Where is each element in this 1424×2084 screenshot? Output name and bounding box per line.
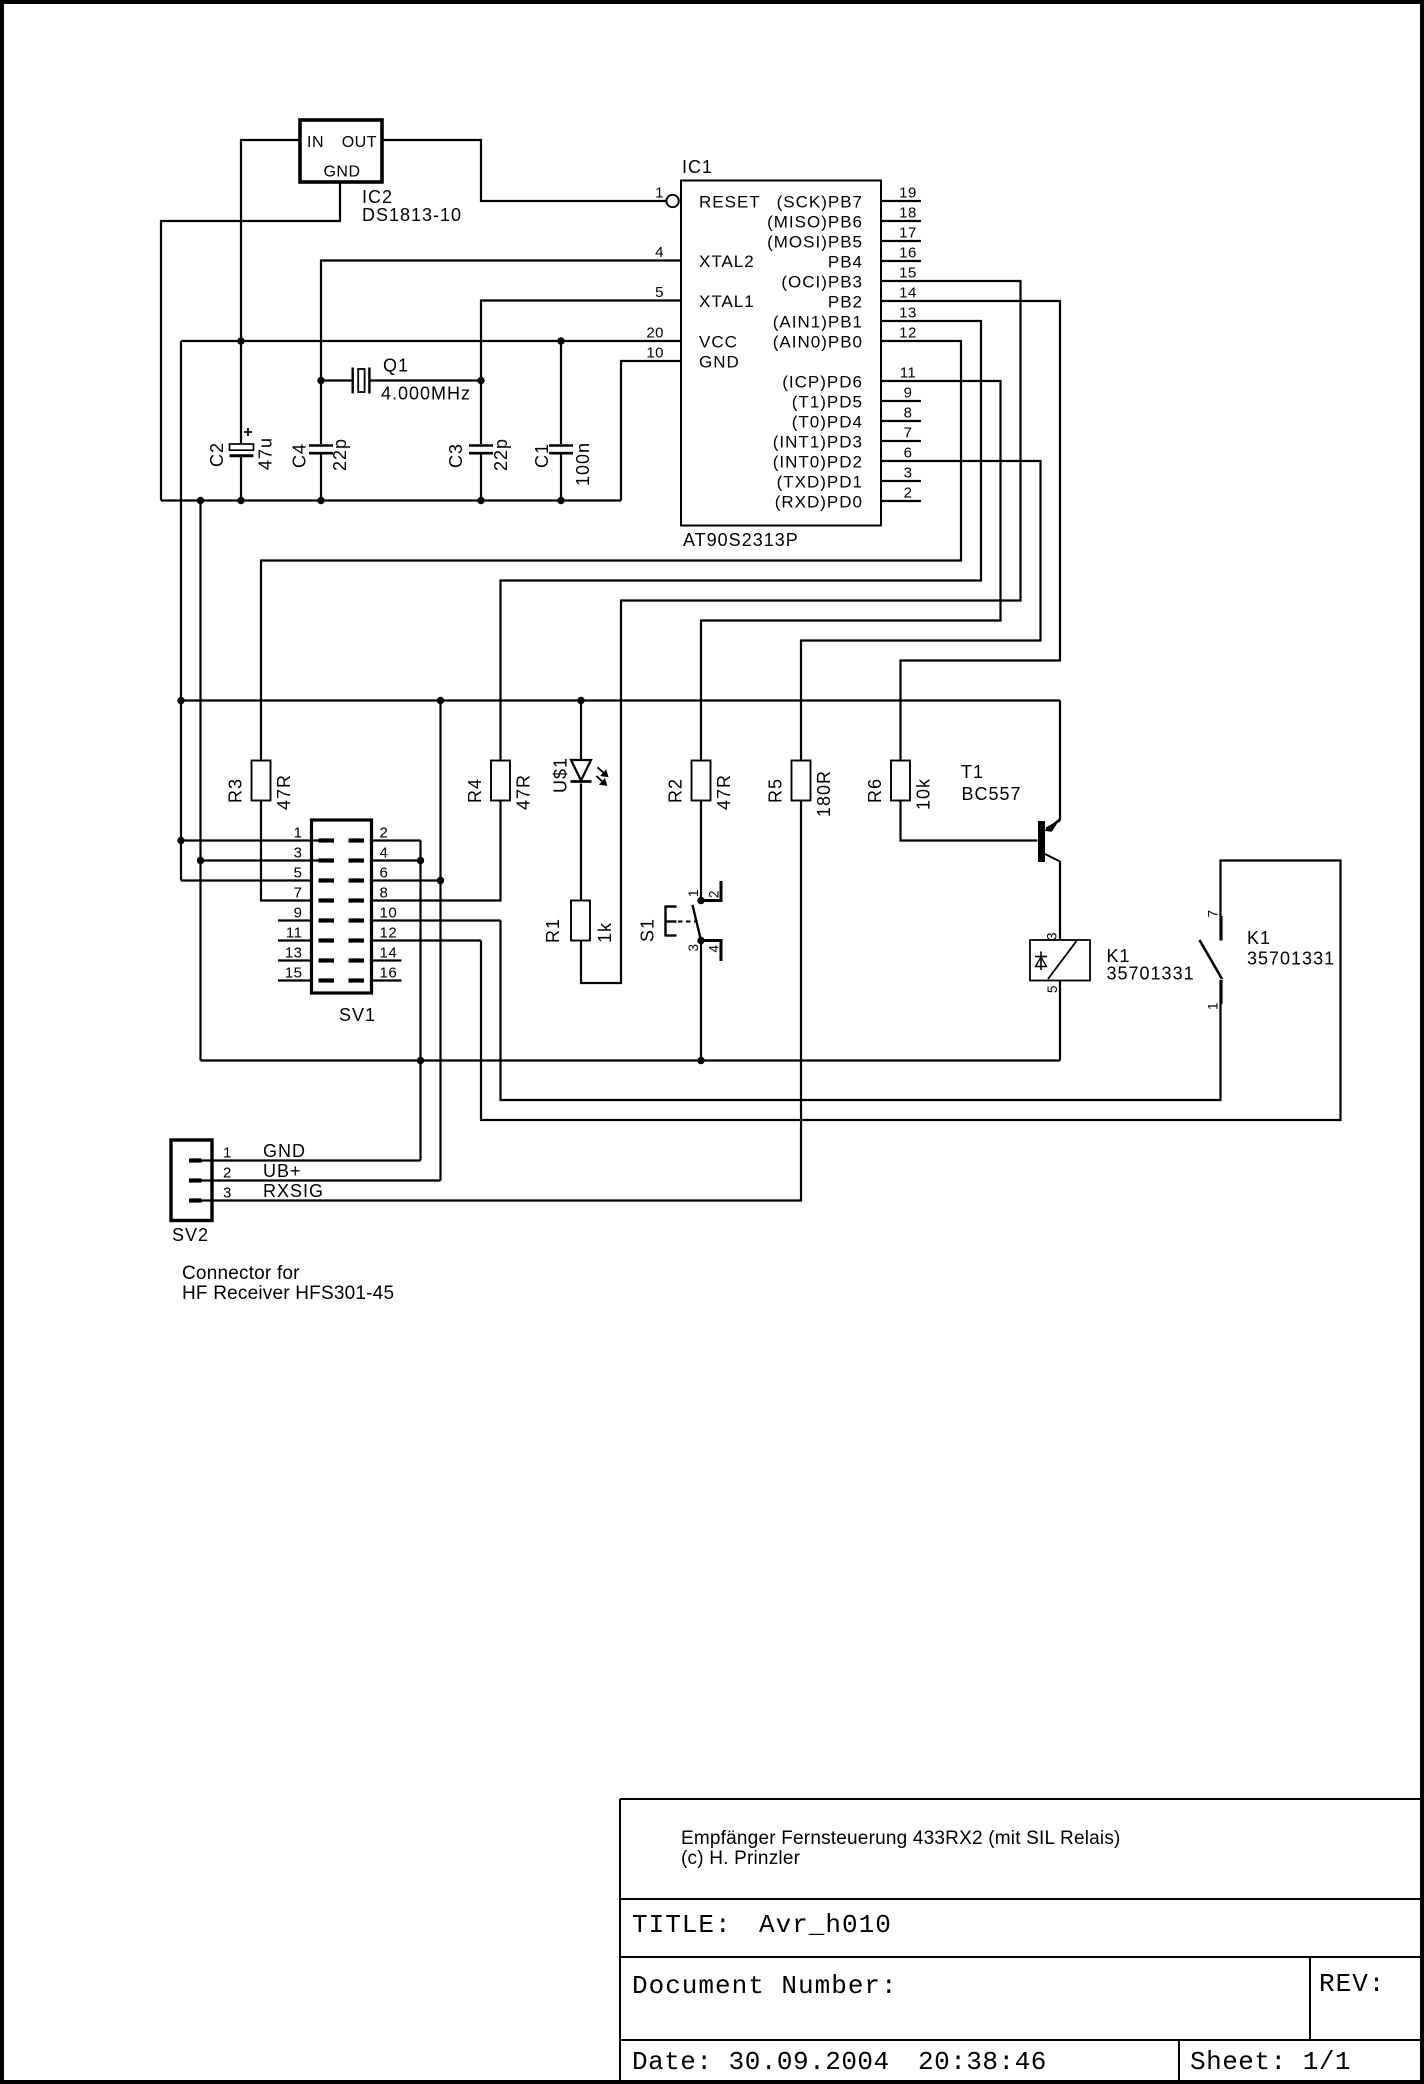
IC1 right pin numbers — [899, 185, 917, 502]
wire VCC rail down left — [180, 341, 182, 881]
svg-text:1: 1 — [1206, 1002, 1221, 1010]
wire R5 bottom to RXSIG — [202, 801, 802, 1201]
svg-text:Q1: Q1 — [383, 356, 409, 376]
wire IC1 pin15 PB3 — [581, 281, 1021, 983]
svg-text:1: 1 — [294, 825, 303, 842]
svg-text:12: 12 — [380, 925, 398, 942]
IC1 right pin names — [767, 192, 863, 511]
wire R3 bottom to SV1 pin7 — [261, 801, 312, 901]
svg-text:35701331: 35701331 — [1247, 949, 1335, 969]
relay K1 contact 35701331 — [1200, 909, 1336, 1010]
relay K1 coil 35701331 — [1030, 932, 1195, 993]
wire SV1 pin3 row — [201, 859, 320, 861]
IC1 RESET pin inversion circle — [666, 195, 678, 207]
capacitor C3 22p — [446, 438, 511, 471]
wire VCC rail to IC1 VCC pin20 — [181, 340, 681, 342]
svg-text:6: 6 — [904, 445, 913, 462]
junction UB SV1 pin6 — [437, 877, 444, 884]
wire GND bus top — [161, 499, 621, 501]
title block frame — [620, 1799, 1420, 2080]
svg-text:100n: 100n — [573, 442, 593, 486]
wire SV2 pin1 GND row — [202, 1159, 421, 1161]
svg-text:IN: IN — [307, 134, 324, 151]
wire SV1 pin5 VCC — [181, 879, 312, 881]
svg-text:R1: R1 — [543, 918, 563, 943]
svg-text:18: 18 — [899, 205, 917, 222]
svg-text:1k: 1k — [595, 922, 615, 943]
svg-text:2: 2 — [707, 890, 722, 898]
wire XTAL1 to C3/Q1 — [481, 301, 681, 445]
wire IC1 pin13 PB1 — [501, 321, 982, 761]
wire IC1 pin6 PD2 — [801, 461, 1041, 761]
svg-text:180R: 180R — [814, 770, 834, 817]
svg-text:22p: 22p — [330, 438, 350, 471]
svg-text:IC1: IC1 — [682, 157, 713, 177]
wire SV1 pin2 down to SV2 pin1 — [419, 841, 421, 1161]
svg-text:22p: 22p — [491, 438, 511, 471]
svg-text:R2: R2 — [666, 778, 686, 803]
transistor T1 BC557 — [961, 762, 1060, 862]
wire Q1 right lead — [371, 379, 481, 381]
svg-text:5: 5 — [294, 865, 303, 882]
wire IC1 pin11 PD6 — [701, 381, 1001, 761]
svg-text:7: 7 — [1206, 909, 1221, 917]
svg-text:R3: R3 — [226, 778, 246, 803]
svg-text:Date: 30.09.2004: Date: 30.09.2004 — [632, 2047, 890, 2077]
svg-text:C2: C2 — [207, 442, 227, 467]
wire VCC bus to T1 emitter — [1059, 701, 1061, 821]
wire R1 top to LED cathode — [580, 784, 582, 901]
svg-text:(OCI)PB3: (OCI)PB3 — [781, 272, 863, 291]
svg-text:14: 14 — [380, 945, 398, 962]
wire SV1 pin1 VCC — [181, 839, 319, 841]
svg-text:C1: C1 — [532, 443, 552, 468]
svg-text:5: 5 — [1045, 985, 1060, 993]
junction VCC LED anode — [577, 697, 584, 704]
svg-text:IC2: IC2 — [362, 187, 393, 207]
wire C4 bottom leg — [320, 455, 322, 501]
svg-text:TITLE:: TITLE: — [632, 1910, 732, 1940]
svg-text:(AIN0)PB0: (AIN0)PB0 — [773, 332, 863, 351]
svg-text:Empfänger Fernsteuerung 433RX2: Empfänger Fernsteuerung 433RX2 (mit SIL … — [681, 1828, 1121, 1849]
junction GND C3 bottom — [477, 497, 484, 504]
junction GND left vertical — [197, 497, 204, 504]
svg-text:4.000MHz: 4.000MHz — [381, 384, 471, 404]
svg-text:8: 8 — [380, 885, 389, 902]
IC1 unconnected pin stubs — [881, 201, 921, 501]
svg-text:R4: R4 — [465, 778, 485, 803]
title block header text — [681, 1828, 1121, 1869]
wire UB+ vertical SV1 pin6 to SV2 pin2 — [439, 701, 441, 1181]
wire C2 top leg — [240, 341, 242, 444]
junction VCC SV1 pin1 — [177, 837, 184, 844]
svg-text:13: 13 — [285, 945, 303, 962]
wire SV2 pin2 UB+ row — [202, 1179, 441, 1181]
svg-text:XTAL2: XTAL2 — [699, 252, 755, 271]
title block TITLE row — [632, 1910, 892, 1940]
svg-text:19: 19 — [899, 185, 917, 202]
resistor R5 180R — [766, 761, 835, 818]
wire S1 pin3 to GND bus — [700, 941, 702, 1061]
svg-text:10: 10 — [380, 905, 398, 922]
svg-text:SV2: SV2 — [172, 1225, 209, 1245]
svg-text:20:38:46: 20:38:46 — [918, 2047, 1047, 2077]
svg-text:(T1)PD5: (T1)PD5 — [792, 392, 863, 411]
svg-text:2: 2 — [380, 825, 389, 842]
svg-text:4: 4 — [707, 944, 722, 952]
svg-text:VCC: VCC — [699, 332, 738, 351]
IC1 left pin numbers — [646, 185, 664, 362]
svg-text:3: 3 — [686, 943, 701, 951]
wire SV1 pin12 row — [372, 939, 482, 941]
svg-text:9: 9 — [294, 905, 303, 922]
svg-text:R6: R6 — [865, 778, 885, 803]
svg-text:BC557: BC557 — [962, 784, 1022, 804]
junction GND SV1 pin3 — [197, 857, 204, 864]
svg-text:(INT0)PD2: (INT0)PD2 — [773, 452, 863, 471]
junction XTAL1 Q1 right — [477, 377, 484, 384]
capacitor C2 47u — [207, 428, 276, 470]
wire IC2 IN to VCC rail — [241, 140, 300, 341]
wire T1 collector to coil pin3 — [1059, 861, 1061, 940]
svg-text:14: 14 — [899, 285, 917, 302]
svg-text:(INT1)PD3: (INT1)PD3 — [773, 432, 863, 451]
svg-text:RESET: RESET — [699, 192, 761, 211]
svg-text:8: 8 — [904, 405, 913, 422]
svg-text:15: 15 — [285, 965, 303, 982]
capacitor C1 100n — [532, 442, 593, 486]
svg-text:10k: 10k — [914, 778, 934, 810]
LED U$1 — [551, 757, 608, 793]
wire GND bus to relay coil pin5 — [1059, 981, 1061, 1061]
svg-text:3: 3 — [904, 465, 913, 482]
svg-text:OUT: OUT — [342, 134, 377, 151]
junction VCC C1 top — [557, 337, 564, 344]
svg-text:DS1813-10: DS1813-10 — [362, 205, 462, 225]
crystal Q1 4.000MHz — [353, 356, 471, 404]
resistor R6 10k — [865, 761, 934, 811]
svg-text:Connector for: Connector for — [182, 1263, 300, 1284]
svg-text:47R: 47R — [514, 774, 534, 810]
svg-text:1: 1 — [686, 889, 701, 897]
wire C2 bottom leg — [240, 457, 242, 501]
wire SV1 pin10 row — [372, 919, 501, 921]
wire IC2 OUT to IC1 RESET — [382, 140, 666, 201]
wire pin10 down and right to K1 pin1 — [501, 921, 1221, 1101]
svg-text:1: 1 — [655, 185, 664, 202]
wire VCC bus horizontal — [181, 699, 1060, 701]
wire SV1 pin6 row — [372, 879, 441, 881]
wire C1 bottom leg — [560, 455, 562, 501]
svg-text:2: 2 — [223, 1165, 232, 1182]
switch S1 — [638, 881, 722, 961]
note connector text — [182, 1263, 394, 1304]
svg-text:HF Receiver HFS301-45: HF Receiver HFS301-45 — [182, 1283, 394, 1304]
svg-text:C3: C3 — [446, 443, 466, 468]
wire R2 bottom to S1 — [700, 801, 702, 901]
svg-text:16: 16 — [380, 965, 398, 982]
resistor R1 1k — [543, 901, 615, 944]
svg-text:XTAL1: XTAL1 — [699, 292, 755, 311]
wire GND lower bus — [201, 1059, 1061, 1061]
svg-text:16: 16 — [899, 245, 917, 262]
junction GND C2 bottom — [237, 497, 244, 504]
resistor R4 47R — [465, 761, 534, 811]
svg-text:4: 4 — [655, 244, 664, 261]
connector SV2 — [171, 1140, 232, 1245]
svg-text:Avr_h010: Avr_h010 — [759, 1910, 892, 1940]
title block Date — [632, 2047, 1047, 2077]
svg-text:Sheet: 1/1: Sheet: 1/1 — [1190, 2047, 1351, 2077]
svg-text:47R: 47R — [714, 774, 734, 810]
svg-text:(ICP)PD6: (ICP)PD6 — [782, 372, 863, 391]
svg-text:T1: T1 — [961, 762, 984, 782]
junction XTAL2 Q1 left — [317, 377, 324, 384]
IC IC2 box — [300, 120, 382, 182]
svg-text:10: 10 — [646, 345, 664, 362]
IC IC1 box — [681, 181, 881, 526]
svg-text:3: 3 — [1045, 932, 1060, 940]
wire IC2 GND down — [161, 182, 340, 501]
svg-text:GND: GND — [263, 1141, 306, 1161]
junction GND C4 bottom — [317, 497, 324, 504]
svg-text:(MISO)PB6: (MISO)PB6 — [767, 212, 863, 231]
svg-text:UB+: UB+ — [263, 1161, 302, 1181]
svg-text:3: 3 — [223, 1185, 232, 1202]
svg-text:GND: GND — [699, 352, 740, 371]
junction VCC SV1-UB vertical — [437, 697, 444, 704]
svg-text:47u: 47u — [256, 437, 276, 470]
svg-text:RXSIG: RXSIG — [263, 1181, 324, 1201]
svg-text:7: 7 — [294, 885, 303, 902]
IC1 left pin names — [699, 192, 761, 371]
junction VCC C2 top — [237, 337, 244, 344]
resistor R3 47R — [226, 761, 295, 811]
svg-text:4: 4 — [380, 845, 389, 862]
wire GND left vertical down — [199, 501, 201, 1061]
junction SV1 pin4 GND — [417, 857, 424, 864]
junction VCC bus left — [177, 697, 184, 704]
wire LED anode to VCC bus — [580, 701, 582, 760]
svg-text:5: 5 — [655, 284, 664, 301]
svg-text:R5: R5 — [766, 778, 786, 803]
svg-text:20: 20 — [646, 325, 664, 342]
svg-text:12: 12 — [899, 325, 917, 342]
svg-text:47R: 47R — [274, 774, 294, 810]
wire GND to IC1 pin10 — [621, 361, 681, 501]
svg-text:2: 2 — [904, 485, 913, 502]
svg-text:S1: S1 — [638, 918, 658, 942]
junction GND SV1 pin2 vertical — [417, 1057, 424, 1064]
svg-text:3: 3 — [294, 845, 303, 862]
svg-text:11: 11 — [900, 365, 917, 382]
wire R4 bottom to SV1 pin8 — [372, 801, 501, 901]
svg-text:15: 15 — [899, 265, 917, 282]
svg-text:(SCK)PB7: (SCK)PB7 — [777, 192, 863, 211]
svg-text:11: 11 — [286, 925, 303, 942]
svg-text:6: 6 — [380, 865, 389, 882]
wire C1 top leg — [560, 341, 562, 444]
svg-text:GND: GND — [323, 164, 360, 181]
svg-text:(AIN1)PB1: (AIN1)PB1 — [773, 312, 863, 331]
svg-text:(T0)PD4: (T0)PD4 — [792, 412, 863, 431]
svg-text:U$1: U$1 — [551, 757, 571, 793]
svg-text:REV:: REV: — [1319, 1969, 1385, 1999]
svg-text:(MOSI)PB5: (MOSI)PB5 — [767, 232, 863, 251]
svg-text:13: 13 — [899, 305, 917, 322]
wire Q1 left lead — [321, 379, 352, 381]
svg-text:C4: C4 — [290, 443, 310, 468]
wire SV1 pin2 row — [372, 839, 421, 841]
junction GND S1 bottom — [697, 1057, 704, 1064]
resistor R2 47R — [666, 761, 735, 811]
svg-text:(RXD)PD0: (RXD)PD0 — [775, 492, 863, 511]
svg-text:K1: K1 — [1247, 928, 1271, 948]
junction GND C1 bottom — [557, 497, 564, 504]
wire R6 bottom to T1 base — [901, 801, 1038, 841]
svg-text:35701331: 35701331 — [1107, 964, 1195, 984]
svg-text:(c) H. Prinzler: (c) H. Prinzler — [681, 1848, 801, 1869]
svg-text:9: 9 — [904, 385, 913, 402]
wire XTAL2 to C4/Q1 — [321, 261, 681, 445]
svg-text:17: 17 — [899, 225, 917, 242]
wire SV1 pin4 row — [372, 859, 421, 861]
svg-text:PB2: PB2 — [828, 292, 863, 311]
capacitor C4 22p — [290, 438, 351, 471]
svg-text:(TXD)PD1: (TXD)PD1 — [777, 472, 863, 491]
wire IC1 pin14 PB2 — [881, 301, 1060, 761]
svg-text:PB4: PB4 — [828, 252, 863, 271]
wire C3 bottom leg — [480, 455, 482, 501]
svg-text:SV1: SV1 — [339, 1005, 376, 1025]
wire pin12 to K1 pin7 — [481, 861, 1341, 1121]
wire IC1 pin12 PB0 — [261, 341, 961, 761]
svg-text:7: 7 — [904, 425, 913, 442]
svg-text:Document Number:: Document Number: — [632, 1971, 898, 2001]
connector SV1 — [278, 820, 402, 1025]
svg-text:1: 1 — [223, 1145, 232, 1162]
svg-text:AT90S2313P: AT90S2313P — [683, 530, 799, 550]
